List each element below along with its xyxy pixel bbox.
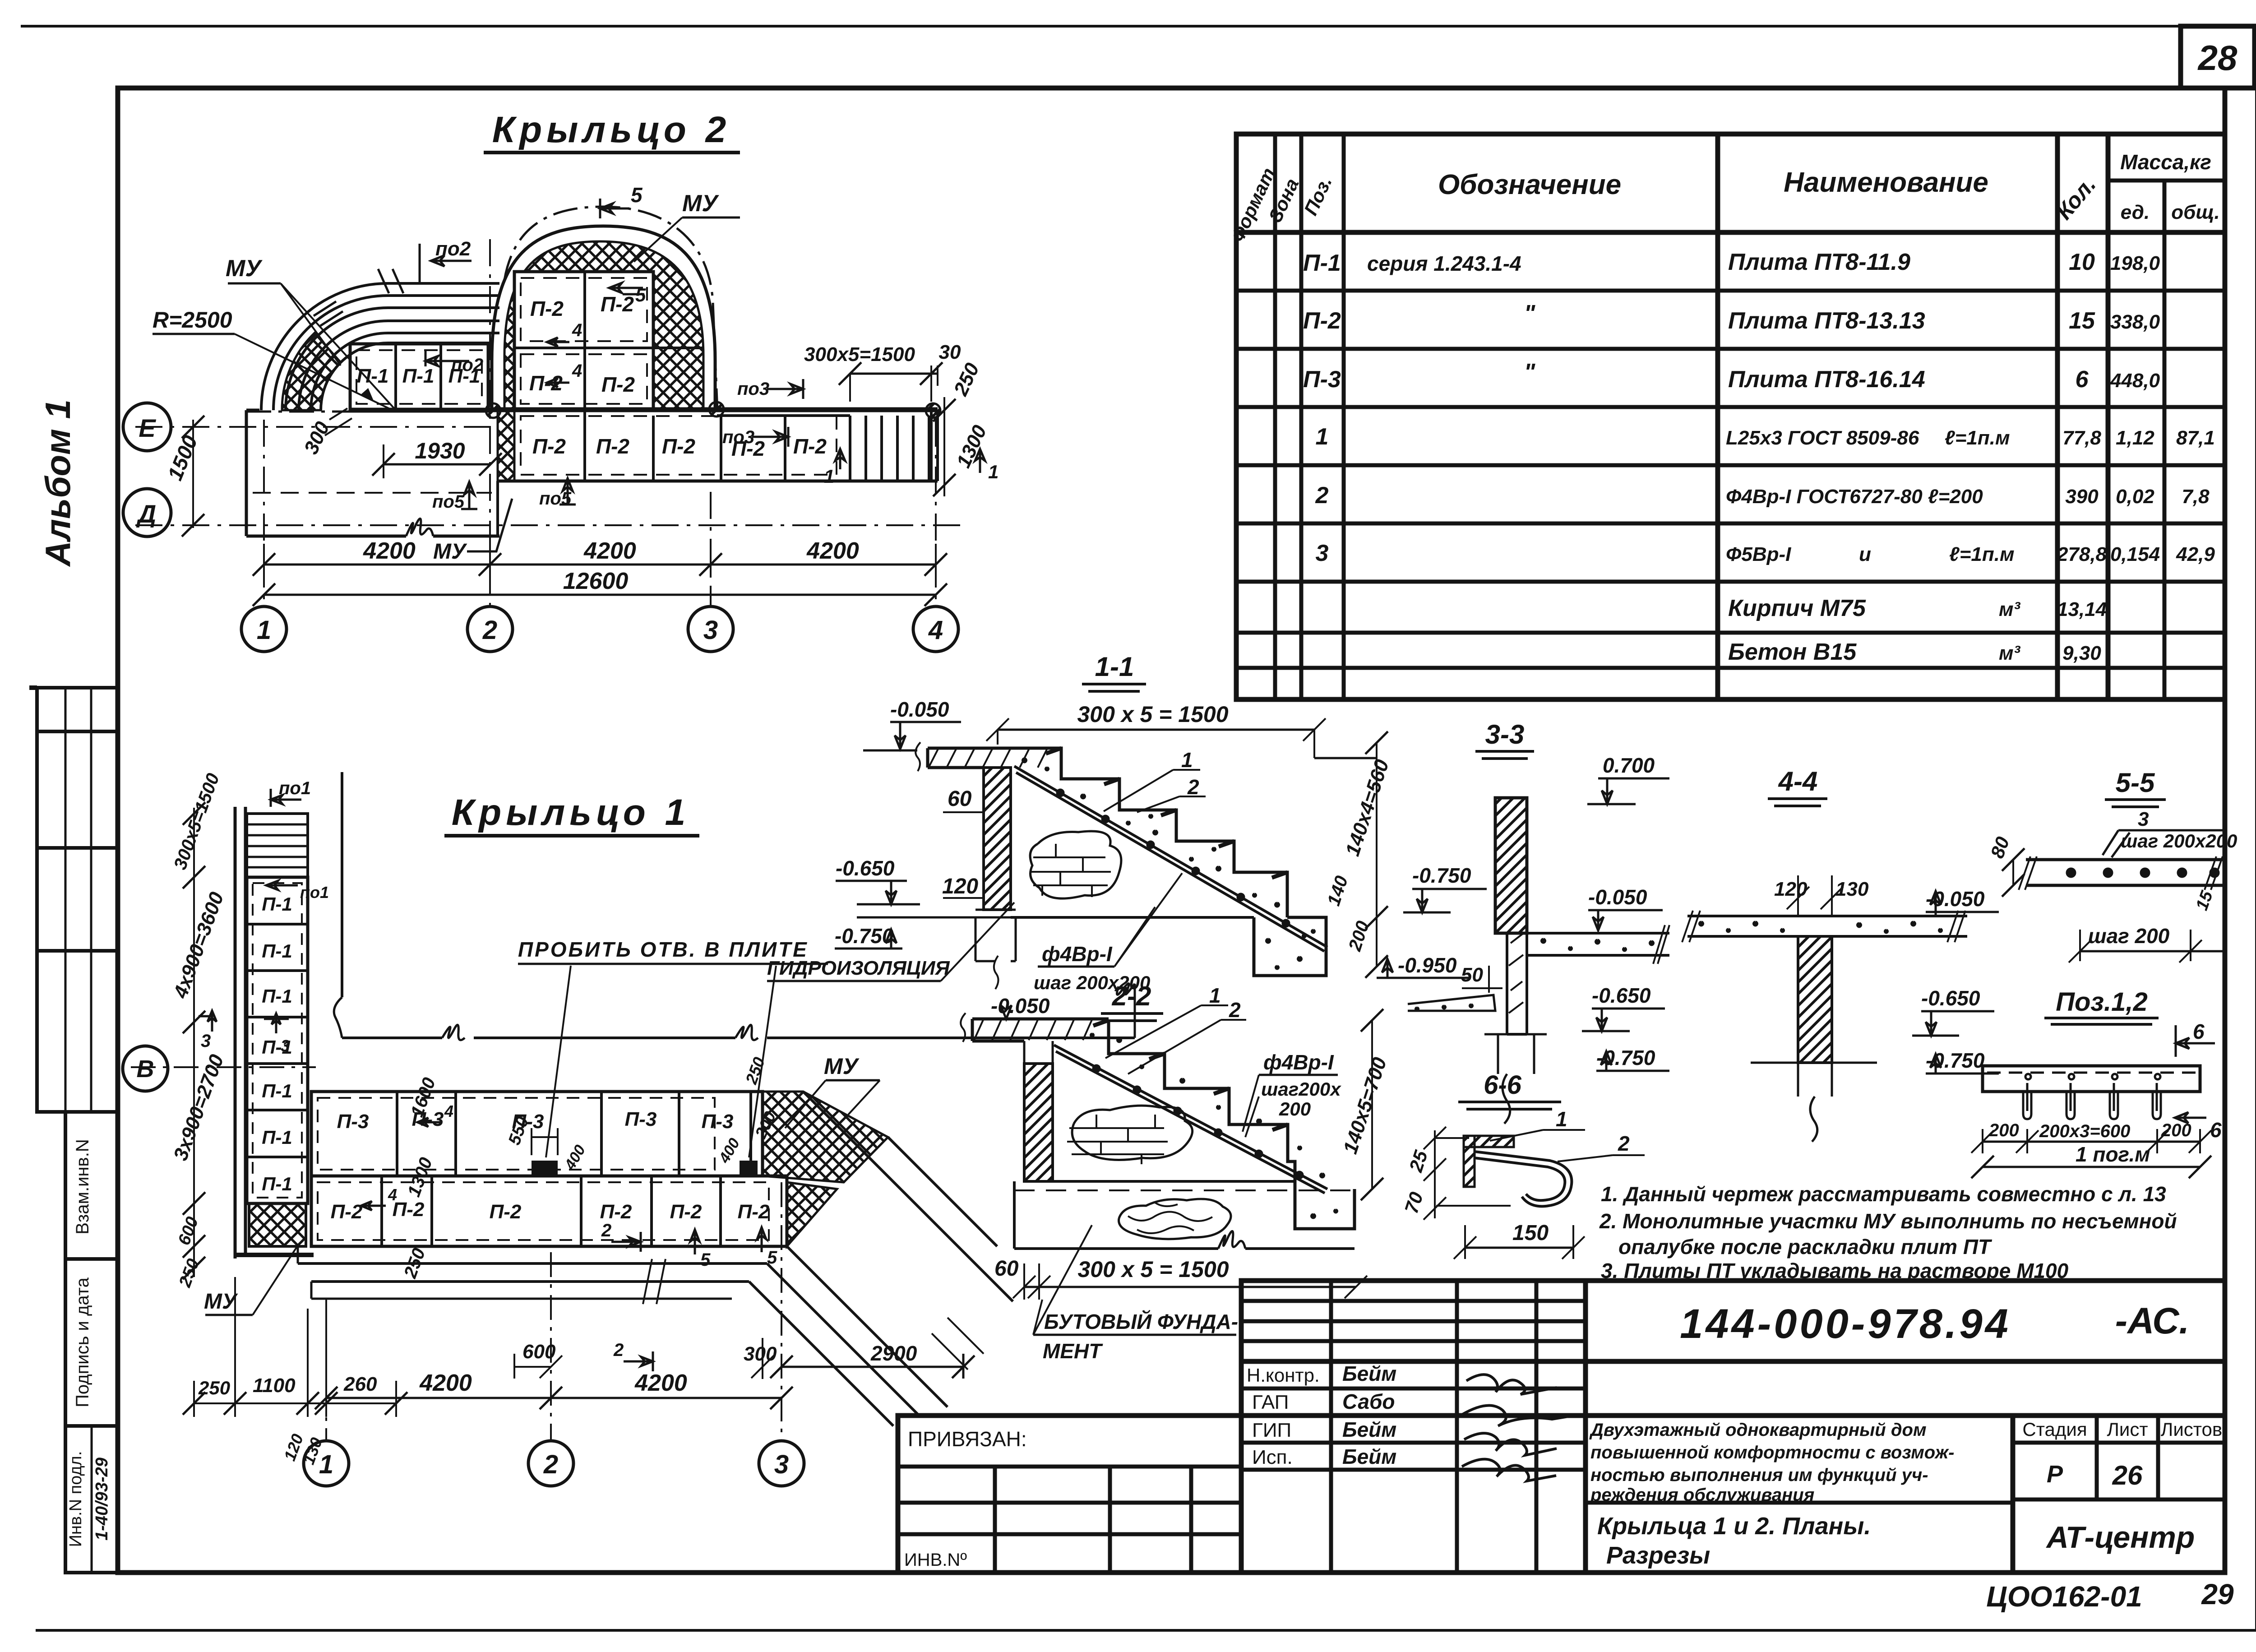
svg-text:15: 15 xyxy=(2069,308,2095,334)
МУ crosshatch cell bottom of column xyxy=(249,1203,306,1246)
ramp straight tread lines xyxy=(388,283,499,343)
svg-text:300 х 5 = 1500: 300 х 5 = 1500 xyxy=(1077,702,1228,727)
vertical dim chain left xyxy=(193,808,195,1277)
svg-text:шаг 200: шаг 200 xyxy=(2088,924,2170,948)
svg-text:77,8: 77,8 xyxy=(2062,427,2101,449)
svg-text:АТ-центр: АТ-центр xyxy=(2046,1520,2195,1555)
svg-text:1: 1 xyxy=(1209,984,1221,1007)
svg-text:реждения обслуживания: реждения обслуживания xyxy=(1590,1485,1814,1505)
building wall vertical double line xyxy=(235,807,245,1259)
svg-text:-0.650: -0.650 xyxy=(836,856,895,880)
svg-text:П-1: П-1 xyxy=(262,986,292,1007)
svg-text:БУТОВЫЙ ФУНДА-: БУТОВЫЙ ФУНДА- xyxy=(1044,1310,1238,1333)
svg-text:50: 50 xyxy=(1461,964,1483,986)
svg-text:1,12: 1,12 xyxy=(2116,427,2154,449)
svg-text:В: В xyxy=(137,1055,154,1083)
80 dim 5-5 xyxy=(2012,860,2014,885)
svg-text:5: 5 xyxy=(700,1250,711,1270)
svg-text:3: 3 xyxy=(774,1450,789,1479)
svg-text:1100: 1100 xyxy=(253,1374,296,1397)
svg-text:м³: м³ xyxy=(1999,598,2021,620)
svg-text:П-3: П-3 xyxy=(625,1108,657,1130)
svg-text:300: 300 xyxy=(744,1343,777,1365)
ramp radial hash marks xyxy=(314,269,403,326)
svg-text:-0.650: -0.650 xyxy=(1592,984,1651,1007)
svg-text:": " xyxy=(1524,359,1536,385)
svg-text:200: 200 xyxy=(1279,1098,1311,1120)
stairs treads xyxy=(850,416,929,481)
svg-text:120: 120 xyxy=(1774,878,1808,900)
svg-text:П-2: П-2 xyxy=(490,1201,522,1223)
svg-text:Сабо: Сабо xyxy=(1342,1390,1395,1413)
grid verticals dash-dot down to bubbles xyxy=(326,1182,781,1439)
column 4-4 xyxy=(1798,936,1832,1063)
svg-text:МУ: МУ xyxy=(433,540,467,564)
title block outer xyxy=(1241,1281,2225,1573)
spec table column lines xyxy=(1273,134,1277,699)
svg-text:П-3: П-3 xyxy=(1303,366,1341,393)
svg-text:250: 250 xyxy=(198,1377,230,1398)
svg-text:П-2: П-2 xyxy=(670,1201,702,1223)
svg-text:ГИДРОИЗОЛЯЦИЯ: ГИДРОИЗОЛЯЦИЯ xyxy=(767,957,950,979)
svg-text:12600: 12600 xyxy=(563,568,629,594)
handrail posts xyxy=(486,403,500,418)
svg-text:-0.750: -0.750 xyxy=(1412,864,1471,887)
svg-text:5: 5 xyxy=(767,1248,777,1268)
svg-text:200: 200 xyxy=(2161,1120,2191,1140)
svg-text:по2: по2 xyxy=(451,355,483,375)
signature 2 xyxy=(1462,1406,1579,1426)
svg-text:ГИП: ГИП xyxy=(1252,1419,1291,1441)
privyazan block xyxy=(898,1416,1241,1573)
right dim 140x5=700 xyxy=(1371,1020,1373,1189)
svg-text:260: 260 xyxy=(343,1373,377,1395)
arch outer arc xyxy=(492,226,715,412)
svg-text:60: 60 xyxy=(994,1257,1019,1281)
bar Поз.1,2 xyxy=(1983,1066,2200,1092)
svg-text:13,14: 13,14 xyxy=(2057,598,2107,620)
top slab hatched xyxy=(928,748,1061,768)
svg-text:4: 4 xyxy=(928,615,943,645)
svg-text:-0.050: -0.050 xyxy=(1588,885,1647,909)
svg-text:Подпись и дата: Подпись и дата xyxy=(73,1277,92,1407)
svg-text:Плита ПТ8-13.13: Плита ПТ8-13.13 xyxy=(1728,308,1925,334)
bottom dims 250 1100 260 xyxy=(194,1402,397,1404)
svg-text:Бетон В15: Бетон В15 xyxy=(1728,639,1857,665)
svg-text:шаг200х: шаг200х xyxy=(1261,1078,1341,1100)
svg-text:по3: по3 xyxy=(722,427,754,447)
svg-text:Лист: Лист xyxy=(2107,1419,2148,1440)
svg-text:серия 1.243.1-4: серия 1.243.1-4 xyxy=(1367,252,1521,275)
svg-text:1: 1 xyxy=(1556,1107,1567,1131)
svg-text:200х3=600: 200х3=600 xyxy=(2039,1121,2130,1141)
svg-text:198,0: 198,0 xyxy=(2110,252,2160,274)
svg-text:Листов: Листов xyxy=(2161,1419,2222,1440)
svg-text:6: 6 xyxy=(2210,1118,2222,1142)
svg-text:6: 6 xyxy=(2193,1020,2205,1043)
spec table outer border xyxy=(1236,134,2225,699)
left wall crosshatch strip xyxy=(498,410,514,481)
svg-text:2: 2 xyxy=(1315,482,1329,509)
signature 3 xyxy=(1464,1433,1557,1455)
svg-text:-АС.: -АС. xyxy=(2115,1300,2189,1342)
svg-text:-0.950: -0.950 xyxy=(1398,953,1457,977)
svg-text:448,0: 448,0 xyxy=(2110,370,2160,392)
svg-text:26: 26 xyxy=(2112,1460,2143,1490)
bottom line of stair mass xyxy=(1011,916,1254,919)
angle piece vertical leg xyxy=(1464,1136,1475,1187)
svg-text:П-2: П-2 xyxy=(596,435,629,458)
arch crosshatch dome xyxy=(504,241,703,410)
stadiya list listov cells xyxy=(2011,1416,2016,1573)
svg-text:Плита ПТ8-11.9: Плита ПТ8-11.9 xyxy=(1728,249,1910,275)
grid line E dash-dot xyxy=(135,426,494,428)
П-3 row xyxy=(311,1092,763,1176)
grid line Д dash-dot xyxy=(135,524,968,526)
svg-text:150: 150 xyxy=(1512,1221,1549,1245)
svg-text:1: 1 xyxy=(257,615,271,645)
grid bubble В xyxy=(123,1046,168,1091)
svg-text:4: 4 xyxy=(572,320,582,340)
svg-text:Разрезы: Разрезы xyxy=(1606,1542,1710,1569)
svg-text:П-2: П-2 xyxy=(662,435,695,458)
stairs right edge double xyxy=(931,410,938,481)
svg-text:П-2: П-2 xyxy=(601,292,634,316)
signature 1 xyxy=(1466,1374,1557,1394)
svg-text:П-1: П-1 xyxy=(262,893,292,915)
svg-text:ф4Вр-I: ф4Вр-I xyxy=(1263,1050,1334,1074)
svg-text:П-1: П-1 xyxy=(402,365,435,387)
step break marks xyxy=(643,1259,984,1370)
svg-text:2: 2 xyxy=(601,1221,611,1240)
svg-text:по5: по5 xyxy=(432,492,465,512)
svg-text:ℓ=1п.м: ℓ=1п.м xyxy=(1949,543,2015,565)
svg-text:120: 120 xyxy=(942,875,978,898)
svg-text:6: 6 xyxy=(2076,366,2089,393)
wall hatched 2-2 xyxy=(1024,1064,1053,1181)
svg-text:П-3: П-3 xyxy=(337,1111,369,1133)
svg-text:МУ: МУ xyxy=(226,255,263,282)
brick blob 1-1 xyxy=(1030,831,1121,898)
svg-text:1-40/93-29: 1-40/93-29 xyxy=(92,1458,111,1541)
svg-text:-0.050: -0.050 xyxy=(890,698,949,721)
svg-text:П-2: П-2 xyxy=(530,297,564,320)
svg-text:Взам.инв.N: Взам.инв.N xyxy=(73,1139,92,1235)
svg-text:1930: 1930 xyxy=(415,438,465,463)
svg-text:5: 5 xyxy=(631,183,643,207)
grid bubbles 1-4 xyxy=(241,606,287,652)
svg-text:Д: Д xyxy=(136,500,156,528)
paper top edge line xyxy=(21,25,2256,28)
sig table mini rows xyxy=(1241,1299,1586,1303)
svg-text:ГАП: ГАП xyxy=(1252,1391,1289,1413)
paper bottom edge line xyxy=(36,1629,2256,1632)
svg-text:2: 2 xyxy=(1618,1132,1630,1155)
svg-text:П-1: П-1 xyxy=(262,1127,292,1148)
svg-text:ностью выполнения им функций у: ностью выполнения им функций уч- xyxy=(1590,1465,1928,1485)
svg-text:Ф4Вр-I ГОСТ6727-80 ℓ=200: Ф4Вр-I ГОСТ6727-80 ℓ=200 xyxy=(1726,486,1983,508)
svg-text:Стадия: Стадия xyxy=(2022,1419,2087,1440)
svg-text:2: 2 xyxy=(1229,998,1241,1022)
top slab hatched 2-2 xyxy=(972,1019,1109,1041)
sig table verticals xyxy=(1329,1281,1333,1573)
svg-text:шаг 200х200: шаг 200х200 xyxy=(2121,830,2237,851)
svg-text:4200: 4200 xyxy=(583,538,636,564)
foundation band 2-2 xyxy=(1014,1181,1355,1249)
sidebar upper box xyxy=(37,688,118,1112)
svg-text:144-000-978.94: 144-000-978.94 xyxy=(1680,1301,2011,1347)
grid bubble Д xyxy=(123,489,171,537)
svg-text:и: и xyxy=(1859,543,1871,565)
svg-text:1: 1 xyxy=(319,1450,333,1479)
svg-text:П-1: П-1 xyxy=(1303,250,1341,276)
slab right 3-3 xyxy=(1527,933,1669,955)
svg-text:П-2: П-2 xyxy=(600,1201,632,1223)
svg-text:3: 3 xyxy=(2138,808,2149,830)
svg-text:МУ: МУ xyxy=(204,1290,238,1314)
svg-text:4200: 4200 xyxy=(806,538,859,564)
paper right edge line xyxy=(2255,26,2256,1630)
svg-text:П-2: П-2 xyxy=(393,1199,425,1221)
svg-text:4200: 4200 xyxy=(419,1370,472,1396)
diagonal platform edges xyxy=(767,1092,1013,1417)
ramp quarter arcs xyxy=(261,283,388,410)
1 section markers right xyxy=(975,449,985,473)
signature 4 xyxy=(1462,1459,1556,1481)
grid bubbles 1 2 3 xyxy=(304,1441,349,1486)
right footing block xyxy=(1254,917,1326,976)
svg-text:Н.контр.: Н.контр. xyxy=(1247,1365,1320,1386)
left slab 3-3 xyxy=(1408,995,1495,1011)
svg-text:МЕНТ: МЕНТ xyxy=(1043,1339,1103,1363)
bottom thick edge xyxy=(235,1253,314,1257)
svg-text:300х5=1500: 300х5=1500 xyxy=(804,343,915,366)
svg-text:2-2: 2-2 xyxy=(1112,981,1151,1011)
spec table header lines xyxy=(2108,179,2225,183)
svg-text:Двухэтажный одноквартирный дом: Двухэтажный одноквартирный дом xyxy=(1589,1420,1927,1440)
svg-text:Кирпич М75: Кирпич М75 xyxy=(1728,595,1866,621)
left platform right connector xyxy=(496,481,499,536)
МУ corner crosshatch upper xyxy=(763,1092,888,1182)
МУ corner crosshatch lower wedge xyxy=(787,1182,837,1246)
svg-text:ед.: ед. xyxy=(2121,201,2150,223)
sheet number box 28 xyxy=(2181,26,2255,88)
svg-text:2: 2 xyxy=(482,615,497,645)
svg-text:П-1: П-1 xyxy=(262,940,292,962)
arch outer dash-dot arc xyxy=(504,207,717,411)
svg-text:МУ: МУ xyxy=(682,190,719,217)
svg-text:1 пог.м: 1 пог.м xyxy=(2076,1143,2150,1166)
svg-text:П-1: П-1 xyxy=(262,1173,292,1194)
svg-text:общ.: общ. xyxy=(2171,201,2220,223)
svg-text:2: 2 xyxy=(613,1340,624,1360)
wall column 3-3 xyxy=(1495,798,1527,933)
svg-text:ПРИВЯЗАН:: ПРИВЯЗАН: xyxy=(908,1427,1027,1451)
svg-text:П-2: П-2 xyxy=(1303,308,1341,334)
concrete dots in steps xyxy=(1022,758,1306,938)
step nosing marks xyxy=(1046,748,1287,878)
svg-text:2. Монолитные участки МУ выпол: 2. Монолитные участки МУ выполнить по не… xyxy=(1599,1209,2177,1233)
svg-text:30: 30 xyxy=(939,341,961,363)
svg-text:R=2500: R=2500 xyxy=(153,307,232,333)
svg-text:278,8: 278,8 xyxy=(2057,543,2107,565)
svg-text:П-3: П-3 xyxy=(702,1111,734,1133)
dim 250 1300 right xyxy=(943,397,945,496)
ground and footing 4-4 xyxy=(1751,1063,1877,1142)
svg-text:П-2: П-2 xyxy=(601,373,635,396)
П-2 grid in arch xyxy=(514,272,653,410)
svg-text:4200: 4200 xyxy=(634,1370,687,1396)
ground line 2-2 xyxy=(1053,1180,1295,1183)
svg-text:200: 200 xyxy=(1988,1120,2019,1140)
svg-text:м³: м³ xyxy=(1999,642,2021,664)
svg-text:П-1: П-1 xyxy=(262,1080,292,1101)
svg-text:4: 4 xyxy=(444,1102,453,1120)
svg-text:П-2: П-2 xyxy=(532,435,566,458)
angle piece horizontal leg xyxy=(1464,1136,1514,1147)
svg-text:10: 10 xyxy=(2069,249,2095,275)
break squiggle at wall right end xyxy=(1117,983,1135,1038)
footing 3-3 xyxy=(1484,1034,1547,1124)
svg-text:0.700: 0.700 xyxy=(1603,754,1655,777)
svg-text:Плита ПТ8-16.14: Плита ПТ8-16.14 xyxy=(1728,366,1925,393)
svg-text:П-2: П-2 xyxy=(738,1201,770,1223)
handrail thick line xyxy=(488,407,938,412)
svg-text:": " xyxy=(1524,301,1536,327)
rubble blob xyxy=(1119,1199,1231,1239)
svg-text:Крыльца 1 и 2. Планы.: Крыльца 1 и 2. Планы. xyxy=(1597,1513,1871,1540)
hooks xyxy=(2023,1074,2031,1119)
svg-text:300 х 5 = 1500: 300 х 5 = 1500 xyxy=(1077,1257,1229,1282)
dims 25 70 xyxy=(1434,1130,1436,1218)
svg-text:Ф5Вр-I: Ф5Вр-I xyxy=(1726,543,1791,565)
svg-text:42,9: 42,9 xyxy=(2176,543,2215,565)
svg-text:Инв.N подл.: Инв.N подл. xyxy=(66,1451,85,1547)
platform inner dash line xyxy=(253,492,492,494)
svg-text:1: 1 xyxy=(1181,748,1193,772)
hook 6-6 xyxy=(1475,1152,1572,1206)
svg-text:ЦОО162-01: ЦОО162-01 xyxy=(1986,1580,2142,1613)
по1 stairs band xyxy=(247,814,308,877)
platform outline left part xyxy=(246,410,499,536)
grid verticals dash-dot xyxy=(263,420,265,606)
svg-text:ИНВ.Nº: ИНВ.Nº xyxy=(904,1550,967,1570)
svg-text:9,30: 9,30 xyxy=(2062,642,2101,664)
svg-text:1: 1 xyxy=(988,461,999,482)
platform top edge dash-dot under ramp xyxy=(246,411,488,413)
svg-text:ф4Вр-I: ф4Вр-I xyxy=(1042,942,1113,966)
diagonal rebar 2-2 double xyxy=(1054,1045,1327,1193)
svg-text:по1: по1 xyxy=(300,883,329,902)
svg-text:Е: Е xyxy=(139,414,156,442)
wall hatched xyxy=(984,768,1011,910)
svg-text:1-1: 1-1 xyxy=(1095,652,1134,682)
П-1 plates row xyxy=(350,344,488,410)
svg-text:Альбом 1: Альбом 1 xyxy=(38,399,78,567)
5 markers xyxy=(690,1230,699,1254)
svg-text:87,1: 87,1 xyxy=(2176,427,2215,449)
svg-text:60: 60 xyxy=(948,787,972,811)
svg-text:Поз.1,2: Поз.1,2 xyxy=(2056,987,2147,1017)
dim 1500 between Е and Д xyxy=(192,420,194,528)
svg-text:2: 2 xyxy=(1187,775,1199,799)
svg-text:0,154: 0,154 xyxy=(2110,543,2160,565)
svg-text:Бейм: Бейм xyxy=(1342,1445,1396,1468)
svg-text:2: 2 xyxy=(543,1450,558,1479)
svg-text:29: 29 xyxy=(2201,1578,2234,1610)
svg-text:0,02: 0,02 xyxy=(2116,486,2154,508)
svg-text:1: 1 xyxy=(824,466,834,487)
svg-text:повышенной комфортности с возм: повышенной комфортности с возмож- xyxy=(1590,1443,1954,1462)
svg-text:3: 3 xyxy=(1316,540,1329,566)
black squares отверстия xyxy=(532,1161,558,1176)
svg-text:-0.750: -0.750 xyxy=(835,924,894,948)
bottom П-2 row band xyxy=(498,480,938,483)
brick blob 2-2 xyxy=(1072,1106,1193,1160)
svg-text:3-3: 3-3 xyxy=(1485,719,1525,750)
diagonal rebar double xyxy=(1014,766,1327,951)
П-2 row xyxy=(311,1176,787,1246)
main dim line 4200 4200 xyxy=(326,1397,781,1399)
ramp inner hatched wedge МУ xyxy=(282,333,341,410)
sidebar lower box xyxy=(65,1112,118,1573)
svg-text:Обозначение: Обозначение xyxy=(1438,169,1621,200)
svg-text:ℓ=1п.м: ℓ=1п.м xyxy=(1945,427,2010,449)
svg-text:338,0: 338,0 xyxy=(2110,311,2160,333)
svg-text:Масса,кг: Масса,кг xyxy=(2120,150,2211,174)
break squiggle on platform bottom xyxy=(406,518,433,536)
svg-text:4: 4 xyxy=(388,1185,397,1204)
svg-text:П-2: П-2 xyxy=(331,1201,363,1223)
svg-text:7,8: 7,8 xyxy=(2182,486,2210,508)
svg-text:1. Данный чертеж рассматривать: 1. Данный чертеж рассматривать совместно… xyxy=(1601,1182,2166,1206)
svg-text:П-1: П-1 xyxy=(357,365,389,387)
slab 5-5 xyxy=(2026,860,2224,885)
svg-text:Бейм: Бейм xyxy=(1342,1418,1396,1441)
grid line В dash-dot xyxy=(131,1066,316,1068)
svg-text:3: 3 xyxy=(201,1031,211,1051)
svg-text:390: 390 xyxy=(2065,486,2099,508)
slab band 4-4 xyxy=(1687,916,1967,936)
dim row 12600 xyxy=(264,594,936,596)
svg-text:Крыльцо 1: Крыльцо 1 xyxy=(452,792,690,833)
svg-text:2900: 2900 xyxy=(870,1342,917,1365)
svg-text:6-6: 6-6 xyxy=(1484,1070,1522,1100)
svg-text:П-2: П-2 xyxy=(793,435,827,458)
steps profile xyxy=(1005,748,1287,917)
spec table row lines xyxy=(1236,289,2225,293)
steps profile 2-2 xyxy=(1109,1020,1355,1229)
svg-text:Р: Р xyxy=(2047,1461,2063,1488)
right dims xyxy=(1376,743,1378,967)
svg-text:4: 4 xyxy=(572,361,582,381)
building inner wall line with breaks xyxy=(342,772,1135,1038)
svg-text:L25х3 ГОСТ 8509-86: L25х3 ГОСТ 8509-86 xyxy=(1726,427,1919,449)
svg-text:по3: по3 xyxy=(737,379,769,399)
wall footing xyxy=(975,910,1016,961)
svg-text:1: 1 xyxy=(1316,424,1329,450)
svg-text:3. Плиты ПТ укладывать на раст: 3. Плиты ПТ укладывать на растворе М100 xyxy=(1601,1259,2069,1282)
svg-text:Наименование: Наименование xyxy=(1784,167,1988,198)
svg-text:3: 3 xyxy=(281,1037,290,1055)
svg-text:5-5: 5-5 xyxy=(2116,768,2155,798)
svg-text:опалубке после раскладки плит: опалубке после раскладки плит ПТ xyxy=(1618,1235,1992,1259)
svg-text:4200: 4200 xyxy=(363,538,416,564)
svg-text:3: 3 xyxy=(703,615,718,645)
svg-text:МУ: МУ xyxy=(824,1054,860,1079)
dims 200 200x3=600 200 xyxy=(1983,1141,2200,1143)
svg-text:4-4: 4-4 xyxy=(1778,766,1818,796)
